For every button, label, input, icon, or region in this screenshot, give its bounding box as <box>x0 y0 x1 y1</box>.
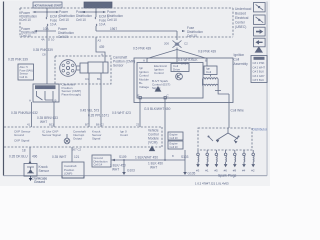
svg-text:Ground: Ground <box>34 180 45 184</box>
svg-text:1 0.2 4784T J21 1.0L 4V03: 1 0.2 4784T J21 1.0L 4V03 <box>195 182 229 186</box>
